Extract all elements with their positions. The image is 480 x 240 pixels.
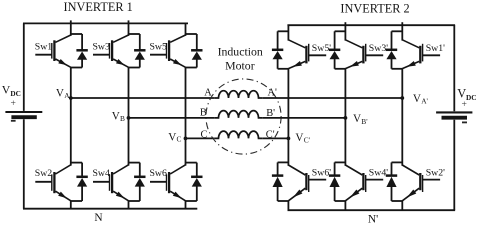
svg-text:N: N — [94, 212, 102, 224]
svg-text:Sw3: Sw3 — [92, 42, 110, 53]
svg-text:+: + — [461, 99, 466, 110]
label − (right battery) — [462, 121, 467, 123]
svg-text:C': C' — [304, 135, 311, 144]
label V_DC (right) — [457, 87, 476, 102]
diode (anti-parallel with Sw6') — [272, 162, 283, 201]
transistor Sw6' (IGBT) — [288, 165, 326, 201]
svg-text:INVERTER 1: INVERTER 1 — [64, 0, 133, 14]
wire: emitter/diode bottom bar of Sw5' — [278, 68, 289, 70]
wire: emitter/diode bottom bar of Sw2' — [392, 200, 403, 202]
wire: emitter/diode bottom bar of Sw4 — [129, 200, 140, 202]
inductor: motor winding phase A — [214, 91, 263, 98]
svg-text:+: + — [10, 98, 15, 109]
svg-text:Motor: Motor — [225, 58, 255, 72]
node V_B' label — [353, 113, 368, 126]
svg-text:V: V — [112, 110, 120, 122]
wire: phase-node stub down to Sw2' — [401, 98, 403, 166]
svg-text:Sw2: Sw2 — [35, 168, 53, 179]
wire: top-rail stub of Sw5' leg — [287, 25, 289, 40]
svg-text:Sw1: Sw1 — [35, 42, 53, 53]
wire: Sw5' leg down to phase node — [287, 68, 289, 138]
transistor Sw3' (IGBT) — [345, 40, 383, 69]
wire: Sw3 leg down to phase node — [128, 67, 130, 118]
svg-text:V: V — [168, 132, 176, 144]
wire: top DC rail of inverter 2 — [287, 24, 455, 26]
wire: emitter/diode bottom bar of Sw1 — [71, 67, 82, 69]
wire: phase B' from motor to inverter 2 — [263, 117, 346, 119]
wire: phase-node stub down to Sw4' — [344, 118, 346, 166]
DC source V_DC (right battery) — [436, 112, 472, 117]
wire: collector/diode top bar of Sw6 — [186, 162, 197, 164]
node V_B label — [112, 110, 125, 123]
svg-text:Sw2': Sw2' — [426, 168, 445, 179]
wire: emitter/diode bottom bar of Sw2 — [71, 200, 82, 202]
svg-text:C: C — [177, 134, 182, 143]
svg-text:A': A' — [421, 96, 428, 105]
wire: phase B from inverter 1 to motor — [129, 117, 215, 119]
node V_A' label — [413, 93, 429, 106]
wire: collector/diode top bar of Sw5' — [278, 30, 289, 32]
wire: collector/diode top bar of Sw2' — [392, 161, 403, 163]
svg-text:Sw5': Sw5' — [312, 43, 331, 54]
svg-text:Sw1': Sw1' — [426, 43, 445, 54]
wire: phase C' from motor to inverter 2 — [263, 137, 289, 139]
wire: Sw1' leg down to phase node — [401, 68, 403, 98]
wire: emitter/diode bottom bar of Sw3' — [335, 68, 346, 70]
wire: Sw6 leg down to bottom rail — [185, 201, 187, 209]
transistor Sw4' (IGBT) — [345, 165, 383, 201]
wire: Sw3' leg down to phase node — [344, 68, 346, 118]
wire: left battery positive lead — [23, 23, 25, 111]
diode (anti-parallel with Sw4') — [329, 162, 340, 201]
svg-text:DC: DC — [10, 89, 21, 98]
label Induction Motor — [218, 44, 263, 72]
wire: top-rail stub of Sw1 leg — [70, 20, 72, 35]
svg-text:A: A — [204, 88, 212, 99]
wire: Sw2 leg down to bottom rail — [70, 201, 72, 209]
diode (anti-parallel with Sw2') — [386, 162, 397, 201]
wire: right battery positive lead — [453, 25, 455, 111]
wire: collector/diode top bar of Sw1' — [392, 30, 403, 32]
diode (anti-parallel with Sw3') — [329, 31, 340, 69]
wire: left battery negative lead — [23, 119, 25, 209]
svg-text:C: C — [201, 129, 208, 140]
svg-text:Sw5: Sw5 — [149, 42, 167, 53]
junction: phase A' / inverter-2 leg — [400, 96, 404, 100]
diode (anti-parallel with Sw5') — [272, 31, 283, 69]
diode (anti-parallel with Sw5) — [191, 34, 202, 68]
DC source V_DC (left battery) — [5, 112, 42, 117]
wire: collector/diode top bar of Sw3' — [335, 30, 346, 32]
transistor Sw1' (IGBT) — [402, 40, 440, 69]
wire: emitter/diode bottom bar of Sw4' — [335, 200, 346, 202]
diode (anti-parallel with Sw6) — [191, 163, 202, 201]
wire: phase C from inverter 1 to motor — [186, 137, 215, 139]
node V_C label — [168, 132, 181, 144]
transistor Sw1 (IGBT) — [35, 35, 71, 67]
svg-text:V: V — [56, 87, 64, 99]
wire: top-rail stub of Sw1' leg — [401, 22, 403, 40]
wire: phase-node stub down to Sw2 — [70, 98, 72, 166]
wire: phase-node stub down to Sw4 — [128, 118, 130, 166]
wire: collector/diode top bar of Sw2 — [71, 162, 82, 164]
svg-text:V: V — [353, 113, 361, 125]
motor stator boundary (dash-dot circle) — [206, 79, 281, 154]
svg-text:DC: DC — [466, 93, 477, 102]
svg-text:INVERTER 2: INVERTER 2 — [340, 1, 409, 15]
junction: phase C' / inverter-2 leg — [287, 137, 291, 141]
junction: phase B' / inverter-2 leg — [344, 116, 348, 120]
wire: collector/diode top bar of Sw4' — [335, 161, 346, 163]
wire: Sw5 leg down to phase node — [185, 67, 187, 138]
wire: collector/diode top bar of Sw3 — [129, 33, 140, 35]
inductor: motor winding phase B — [214, 111, 263, 118]
node V_C' label — [295, 132, 310, 145]
wire: phase A' from motor to inverter 2 — [263, 97, 403, 99]
wire: emitter/diode bottom bar of Sw1' — [392, 68, 403, 70]
svg-text:N': N' — [368, 214, 378, 226]
inductor: motor winding phase C — [214, 131, 263, 138]
wire: Sw2' leg down to bottom rail — [401, 201, 403, 211]
wire: bottom DC rail of inverter 1 — [23, 208, 197, 210]
svg-text:V: V — [295, 132, 303, 144]
wire: collector/diode top bar of Sw4 — [129, 162, 140, 164]
wire: Sw6' leg down to bottom rail — [287, 201, 289, 211]
svg-text:B: B — [200, 108, 207, 119]
svg-text:Sw3': Sw3' — [369, 43, 388, 54]
transistor Sw2 (IGBT) — [35, 165, 71, 201]
transistor Sw4 (IGBT) — [93, 165, 129, 201]
wire: top-rail stub of Sw3 leg — [128, 20, 130, 35]
wire: emitter/diode bottom bar of Sw6 — [186, 200, 197, 202]
wire: Sw4' leg down to bottom rail — [344, 201, 346, 211]
svg-text:Induction: Induction — [218, 44, 263, 58]
wire: phase A from inverter 1 to motor — [71, 97, 214, 99]
svg-text:Sw6: Sw6 — [149, 168, 167, 179]
transistor Sw3 (IGBT) — [93, 35, 129, 67]
wire: bottom DC rail of inverter 2 — [288, 209, 456, 211]
junction: phase B / inverter-1 leg — [127, 116, 131, 120]
wire: phase-node stub down to Sw6 — [185, 138, 187, 165]
wire: top DC rail of inverter 1 — [23, 22, 188, 24]
diode (anti-parallel with Sw4) — [134, 163, 145, 201]
wire: emitter/diode bottom bar of Sw6' — [278, 200, 289, 202]
wire: right battery negative lead — [453, 120, 455, 211]
svg-text:V: V — [413, 93, 421, 105]
wire: top-rail stub of Sw3' leg — [344, 22, 346, 40]
svg-text:Sw6': Sw6' — [312, 168, 331, 179]
node V_A label — [56, 87, 70, 100]
diode (anti-parallel with Sw1') — [386, 31, 397, 69]
svg-text:B': B' — [361, 117, 368, 126]
wire: Sw4 leg down to bottom rail — [128, 201, 130, 209]
svg-text:Sw4: Sw4 — [92, 168, 110, 179]
wire: top-rail stub of Sw5 leg — [185, 23, 187, 35]
junction: phase A / inverter-1 leg — [69, 96, 73, 100]
diode (anti-parallel with Sw3) — [134, 34, 145, 68]
label − (left battery) — [11, 120, 16, 122]
wire: emitter/diode bottom bar of Sw3 — [129, 67, 140, 69]
wire: phase-node stub down to Sw6' — [287, 138, 289, 165]
wire: collector/diode top bar of Sw6' — [278, 161, 289, 163]
diode (anti-parallel with Sw2) — [76, 163, 87, 201]
transistor Sw6 (IGBT) — [150, 165, 186, 201]
wire: collector/diode top bar of Sw5 — [186, 33, 197, 35]
diode (anti-parallel with Sw1) — [76, 34, 87, 68]
svg-text:Sw4': Sw4' — [369, 168, 388, 179]
label V_DC (left) — [2, 83, 21, 98]
wire: collector/diode top bar of Sw1 — [71, 33, 82, 35]
wire: Sw1 leg down to phase node — [70, 67, 72, 98]
transistor Sw5 (IGBT) — [150, 35, 186, 67]
transistor Sw5' (IGBT) — [288, 40, 326, 69]
svg-text:B: B — [120, 114, 125, 123]
wire: emitter/diode bottom bar of Sw5 — [186, 67, 197, 69]
junction: phase C / inverter-1 leg — [184, 137, 188, 141]
svg-text:A': A' — [268, 88, 278, 99]
transistor Sw2' (IGBT) — [402, 165, 440, 201]
